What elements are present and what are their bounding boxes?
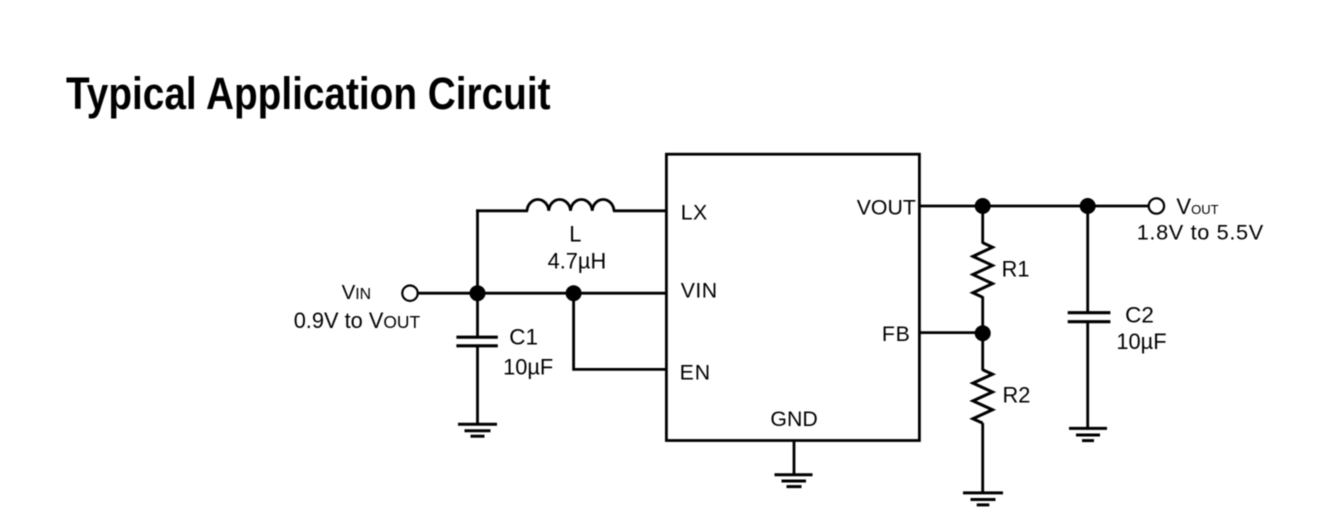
svg-text:10µF: 10µF <box>503 355 553 380</box>
svg-text:0.9V to VOUT: 0.9V to VOUT <box>294 308 421 333</box>
svg-text:10µF: 10µF <box>1116 329 1166 354</box>
resistor R2 <box>973 370 993 423</box>
svg-text:Typical Application Circuit: Typical Application Circuit <box>66 68 551 119</box>
node VIN/L junction <box>470 285 486 301</box>
svg-text:VIN: VIN <box>681 279 718 303</box>
wire C1 top <box>476 293 479 336</box>
ground C1 <box>458 424 497 436</box>
svg-text:R1: R1 <box>1002 257 1030 282</box>
wire GND stub <box>793 441 796 475</box>
terminal VIN <box>402 286 417 301</box>
svg-text:L: L <box>569 221 581 246</box>
wire C2 top <box>1086 206 1089 312</box>
wire VIN rail <box>419 292 667 295</box>
wire R2 top <box>981 333 984 370</box>
wire R2 bottom <box>981 423 984 492</box>
wire EN <box>574 293 667 369</box>
ground GND <box>775 475 813 487</box>
wire C1 bottom <box>476 346 479 424</box>
wire R1 bottom <box>981 297 984 334</box>
svg-text:4.7µH: 4.7µH <box>548 249 607 274</box>
svg-text:VOUT: VOUT <box>857 196 916 220</box>
wire FB <box>919 331 982 334</box>
inductor L <box>527 200 614 211</box>
wire LX pin <box>613 209 666 212</box>
wire input vertical <box>476 209 479 293</box>
node VIN/EN junction <box>566 285 582 301</box>
ground R2 <box>963 493 1003 505</box>
wire C2 bottom <box>1086 322 1089 428</box>
capacitor C2 <box>1068 313 1111 322</box>
node FB junction <box>975 325 991 341</box>
wire inductor left segment <box>476 209 528 212</box>
svg-text:LX: LX <box>681 200 708 224</box>
terminal VOUT <box>1149 198 1164 213</box>
svg-text:GND: GND <box>770 407 817 431</box>
svg-text:R2: R2 <box>1003 383 1031 408</box>
ground C2 <box>1069 428 1107 440</box>
wire VOUT rail <box>919 205 1148 208</box>
op-amp U1 (IC body) <box>666 154 919 440</box>
resistor R1 <box>973 243 993 298</box>
capacitor C1 <box>456 337 497 346</box>
svg-text:FB: FB <box>882 322 910 346</box>
node VOUT/R1 junction <box>975 198 991 214</box>
svg-text:EN: EN <box>680 361 711 385</box>
svg-text:C2: C2 <box>1125 303 1154 328</box>
svg-text:1.8V to 5.5V: 1.8V to 5.5V <box>1137 220 1264 245</box>
node VOUT/C2 junction <box>1080 198 1096 214</box>
wire R1 top <box>981 206 984 244</box>
svg-text:C1: C1 <box>509 325 538 350</box>
